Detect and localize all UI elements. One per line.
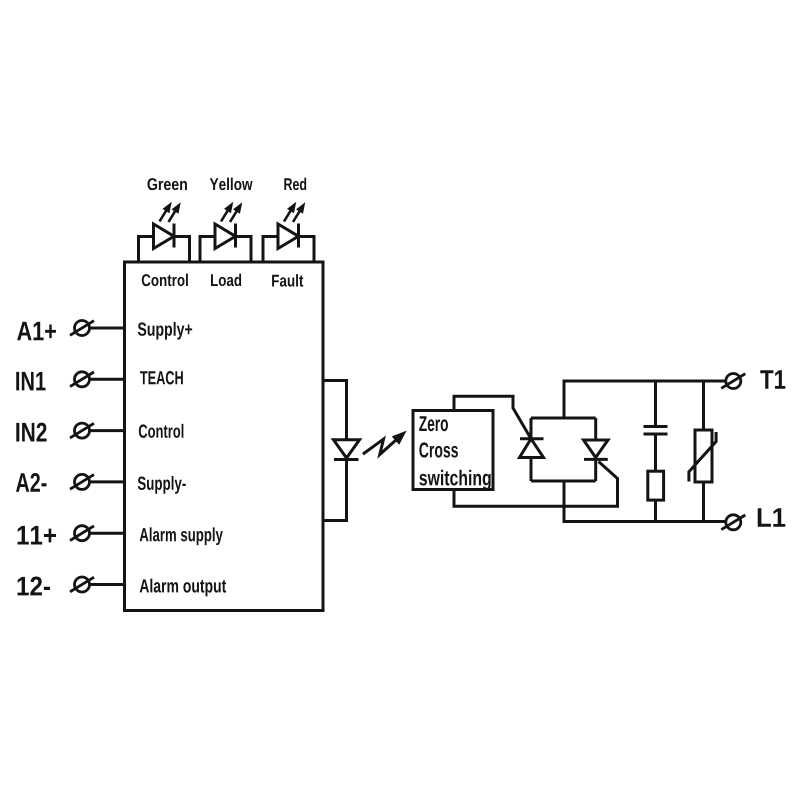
label Fault (LED) — [272, 274, 303, 286]
wire Q1 top — [530, 418, 533, 439]
label T1 — [760, 370, 785, 389]
label Control — [139, 424, 184, 438]
terminal 12- — [70, 577, 94, 592]
terminal A1+ — [70, 321, 94, 336]
bottom rail to L1 — [563, 520, 726, 523]
wire Q2 top — [594, 418, 597, 440]
yellow LED window bump — [200, 237, 251, 263]
label A2- — [16, 473, 47, 492]
label Cross — [419, 442, 458, 457]
zigzag light arrow — [363, 432, 406, 455]
label Red — [284, 178, 306, 190]
LED 1 light arrows — [160, 203, 181, 222]
terminal 11+ — [70, 526, 94, 541]
terminal IN2 — [70, 423, 94, 438]
wire 11+ to body — [90, 532, 125, 535]
label 11+ — [18, 526, 57, 545]
wire C1 to R1 — [654, 434, 657, 471]
wire ZC bottom to thyristor Q2 gate — [454, 462, 618, 507]
wire IN2 to body — [90, 429, 125, 432]
LED 3 light arrows — [284, 203, 305, 222]
terminal L1 — [721, 515, 745, 530]
wire A2- to body — [90, 480, 125, 483]
LED diode 3 — [278, 224, 299, 249]
wire IN1 to body — [90, 378, 125, 381]
top rail to T1 — [563, 380, 726, 383]
terminal T1 — [721, 374, 745, 389]
wire loop bottom — [531, 480, 596, 483]
LED diode 1 — [154, 224, 175, 249]
resistor R1 — [648, 471, 664, 500]
terminal A2- — [70, 474, 94, 489]
green LED window bump — [139, 237, 190, 263]
wire Q1 bottom — [530, 458, 533, 482]
red LED window bump — [263, 237, 314, 263]
terminal IN1 — [70, 372, 94, 387]
wire loop to bottom rail — [563, 481, 566, 523]
label IN1 — [16, 372, 45, 391]
wire varistor bottom — [702, 482, 705, 522]
wire Q2 bottom — [594, 459, 597, 481]
label L1 — [758, 508, 786, 527]
LED 2 light arrows — [221, 203, 242, 222]
label Supply+ — [138, 322, 192, 340]
thyristor Q1 — [520, 439, 544, 458]
wire ZC top to thyristor Q1 gate — [454, 396, 531, 439]
opto LED diode — [334, 440, 360, 460]
wire snubber bottom — [654, 500, 657, 521]
zero-cross switching box U1 — [413, 411, 493, 490]
wire 12- to body — [90, 583, 125, 586]
wire A1+ to body — [90, 327, 125, 330]
label A1+ — [17, 322, 56, 341]
opto LED bump — [323, 381, 347, 521]
wire varistor top — [702, 381, 705, 430]
capacitor C1 — [644, 427, 668, 435]
wire loop top — [531, 417, 596, 420]
label Zero — [419, 416, 448, 431]
label switching — [419, 470, 490, 490]
label Green — [147, 178, 186, 190]
label Supply- — [138, 476, 186, 494]
label Yellow — [210, 178, 253, 190]
label TEACH — [140, 371, 183, 384]
label IN2 — [16, 423, 46, 442]
thyristor Q2 — [584, 440, 609, 459]
wire loop to top rail — [563, 380, 566, 419]
varistor RV1 — [689, 430, 716, 482]
LED diode 2 — [215, 224, 236, 249]
label Alarm output — [140, 579, 226, 597]
label Alarm supply — [140, 527, 223, 545]
label 12- — [18, 577, 51, 596]
label Load (LED) — [211, 274, 241, 286]
label Control (LED) — [142, 274, 188, 286]
relay body box — [125, 262, 324, 611]
wire snubber top — [654, 381, 657, 427]
